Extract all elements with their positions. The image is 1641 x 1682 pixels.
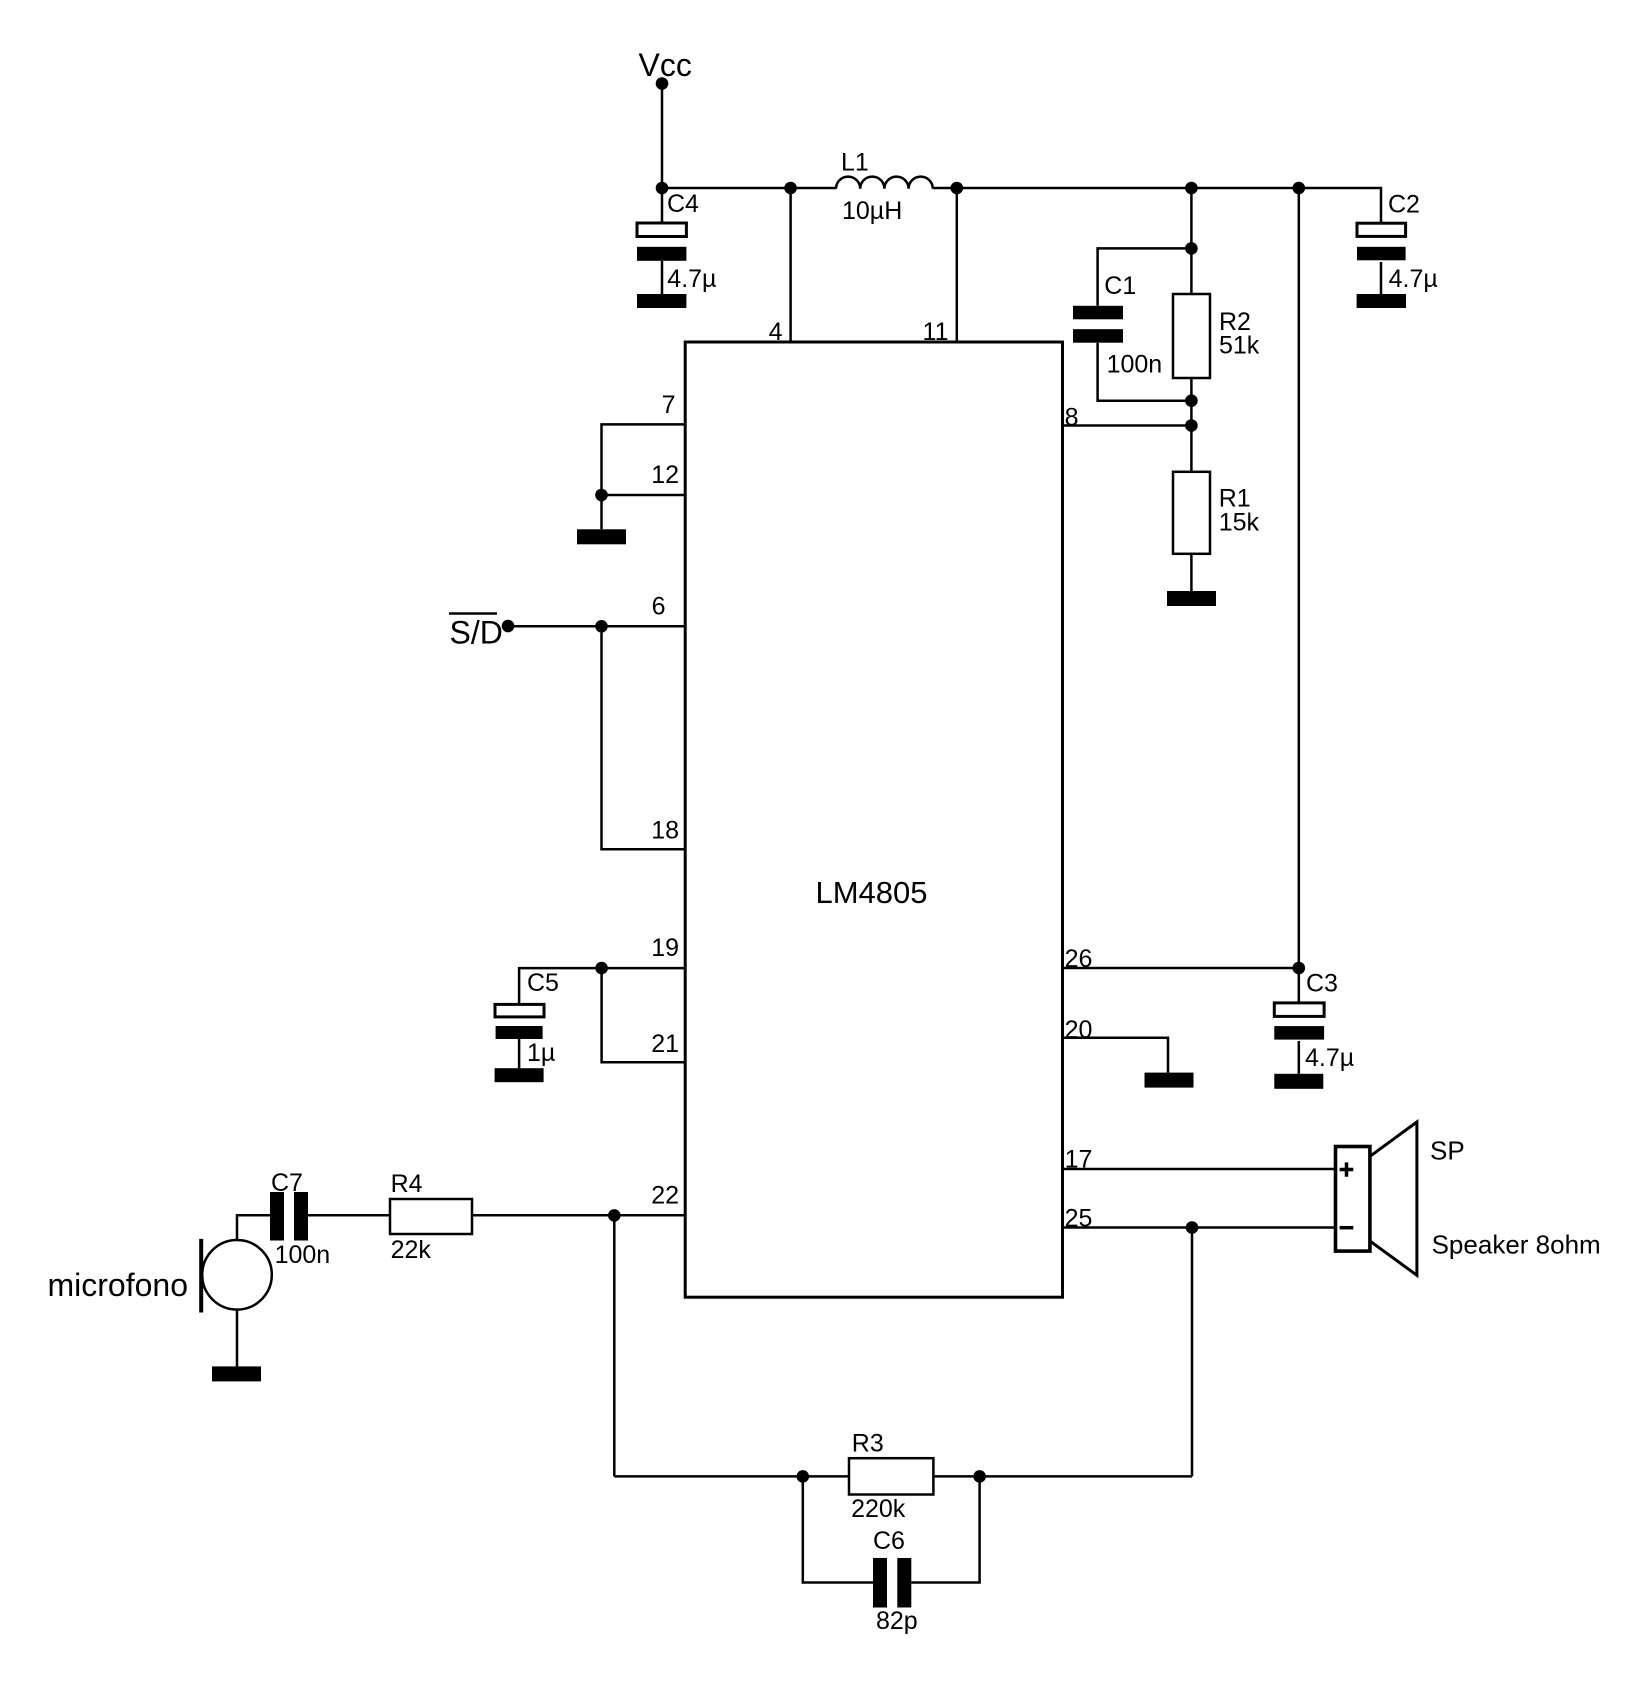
svg-text:C7: C7 bbox=[271, 1169, 303, 1197]
svg-text:10µH: 10µH bbox=[842, 197, 902, 225]
svg-text:C6: C6 bbox=[873, 1527, 905, 1555]
svg-text:11: 11 bbox=[923, 318, 949, 346]
svg-text:C2: C2 bbox=[1388, 191, 1420, 219]
svg-text:19: 19 bbox=[651, 934, 679, 962]
svg-text:100n: 100n bbox=[1107, 351, 1163, 379]
svg-text:C1: C1 bbox=[1104, 272, 1136, 300]
svg-text:100n: 100n bbox=[275, 1241, 331, 1269]
svg-text:4: 4 bbox=[769, 318, 783, 346]
svg-text:8: 8 bbox=[1065, 404, 1079, 432]
svg-text:R3: R3 bbox=[852, 1430, 884, 1458]
svg-text:C5: C5 bbox=[527, 969, 559, 997]
svg-text:26: 26 bbox=[1065, 945, 1093, 973]
svg-text:S/D: S/D bbox=[450, 615, 503, 651]
svg-text:20: 20 bbox=[1065, 1016, 1093, 1044]
svg-text:C3: C3 bbox=[1306, 970, 1338, 998]
svg-text:22k: 22k bbox=[391, 1236, 432, 1264]
svg-text:SP: SP bbox=[1430, 1135, 1465, 1165]
svg-text:LM4805: LM4805 bbox=[815, 875, 927, 910]
svg-text:22: 22 bbox=[651, 1182, 679, 1210]
svg-text:Vcc: Vcc bbox=[639, 47, 692, 83]
svg-text:15k: 15k bbox=[1219, 509, 1260, 537]
svg-text:L1: L1 bbox=[841, 149, 869, 177]
svg-text:21: 21 bbox=[651, 1030, 679, 1058]
svg-text:Speaker 8ohm: Speaker 8ohm bbox=[1432, 1230, 1601, 1260]
svg-text:C4: C4 bbox=[667, 190, 699, 218]
svg-text:4.7µ: 4.7µ bbox=[1305, 1044, 1354, 1072]
svg-text:4.7µ: 4.7µ bbox=[667, 265, 716, 293]
svg-text:17: 17 bbox=[1065, 1146, 1093, 1174]
svg-text:6: 6 bbox=[652, 593, 666, 621]
svg-text:R4: R4 bbox=[391, 1170, 423, 1198]
svg-text:1µ: 1µ bbox=[527, 1039, 555, 1067]
svg-text:25: 25 bbox=[1065, 1205, 1093, 1233]
svg-text:7: 7 bbox=[662, 391, 676, 419]
svg-text:microfono: microfono bbox=[48, 1267, 189, 1303]
svg-text:220k: 220k bbox=[851, 1495, 906, 1523]
svg-text:4.7µ: 4.7µ bbox=[1389, 265, 1438, 293]
svg-text:12: 12 bbox=[651, 461, 679, 489]
svg-text:51k: 51k bbox=[1219, 332, 1260, 360]
svg-text:82p: 82p bbox=[876, 1607, 918, 1635]
svg-text:18: 18 bbox=[651, 817, 679, 845]
